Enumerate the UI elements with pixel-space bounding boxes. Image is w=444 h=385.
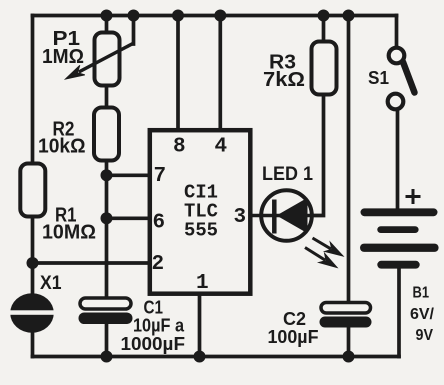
- switch S1 bottom contact: [388, 94, 404, 110]
- svg-text:8: 8: [173, 136, 186, 159]
- capacitor C2 top plate: [321, 303, 371, 314]
- wire left rail: [31, 16, 35, 357]
- svg-text:1: 1: [196, 272, 209, 295]
- node top wiper: [128, 10, 140, 22]
- battery B1 plus sign: [406, 189, 421, 204]
- svg-text:9V: 9V: [416, 327, 434, 344]
- LED1 cathode bar: [272, 200, 277, 234]
- node top C2: [343, 10, 355, 22]
- node top R3: [318, 10, 330, 22]
- node pin7 junction: [101, 169, 113, 181]
- svg-text:10MΩ: 10MΩ: [42, 222, 96, 244]
- node bottom C2: [343, 351, 355, 363]
- wire P1 to R2: [105, 85, 109, 108]
- svg-text:LED 1: LED 1: [262, 164, 313, 185]
- potentiometer P1 arrow: [66, 43, 134, 79]
- resistor R3: [312, 42, 337, 95]
- LED1 light arrow 2: [305, 248, 337, 268]
- svg-text:C2: C2: [283, 309, 306, 329]
- svg-text:555: 555: [184, 220, 218, 242]
- svg-text:X1: X1: [40, 273, 62, 294]
- transducer X1: [10, 293, 55, 333]
- wire C2 to bottom rail: [347, 326, 351, 357]
- svg-text:1000µF: 1000µF: [121, 334, 186, 354]
- svg-text:6: 6: [153, 212, 166, 235]
- capacitor C1 bottom plate: [79, 313, 133, 325]
- wire pin1: [198, 294, 202, 357]
- wire battery minus to bottom rail: [397, 266, 401, 357]
- wire P1 wiper: [132, 16, 136, 45]
- wire pin8: [176, 16, 180, 131]
- svg-text:10kΩ: 10kΩ: [38, 136, 86, 158]
- wire bottom rail: [33, 355, 400, 359]
- capacitor C1 top plate: [80, 298, 131, 309]
- potentiometer P1 body: [95, 33, 120, 86]
- svg-text:100µF: 100µF: [268, 327, 319, 347]
- node left rail pin2: [27, 257, 39, 269]
- svg-text:S1: S1: [368, 68, 389, 88]
- switch S1 top contact: [389, 48, 405, 64]
- wire pin7: [107, 173, 151, 177]
- wire C1 to bottom rail: [105, 322, 109, 357]
- wire top-right to S1: [395, 16, 399, 49]
- node pin6 junction: [101, 212, 113, 224]
- wire pin6: [107, 216, 151, 220]
- resistor R1: [20, 164, 45, 217]
- wire pin4: [218, 16, 222, 131]
- svg-text:7kΩ: 7kΩ: [263, 69, 305, 91]
- svg-text:B1: B1: [413, 285, 430, 302]
- svg-text:2: 2: [152, 253, 165, 276]
- wire R3 to LED corner: [311, 93, 324, 216]
- LED1 light arrow 1: [313, 238, 344, 256]
- svg-text:10µF a: 10µF a: [133, 316, 185, 336]
- battery plate short 4: [377, 261, 419, 269]
- capacitor C2 bottom plate: [320, 317, 372, 328]
- svg-text:1MΩ: 1MΩ: [42, 46, 84, 68]
- svg-text:7: 7: [154, 165, 167, 188]
- resistor R2: [94, 108, 119, 161]
- svg-text:C1: C1: [144, 298, 164, 318]
- switch S1 lever: [403, 62, 415, 93]
- wire S1 to battery plus: [396, 109, 400, 211]
- svg-text:6V/: 6V/: [410, 306, 435, 323]
- svg-text:3: 3: [234, 206, 247, 229]
- node top pin4: [214, 10, 226, 22]
- wire pin3 through LED: [250, 214, 313, 218]
- wire P1 top: [105, 16, 109, 35]
- LED1 circle: [261, 190, 312, 241]
- wire R2 to C1: [105, 160, 109, 299]
- node top P1: [101, 10, 113, 22]
- IC CI1 TLC555 timer box: [150, 130, 251, 294]
- wire R3 top: [322, 16, 326, 44]
- node bottom pin1: [194, 351, 206, 363]
- node top pin8: [172, 10, 184, 22]
- wire C2 top: [347, 16, 351, 304]
- battery plate short 2: [377, 226, 418, 233]
- wire pin2: [33, 261, 151, 265]
- battery plate long 3: [360, 244, 439, 252]
- battery plate long 1: [361, 208, 438, 216]
- node bottom C1: [101, 351, 113, 363]
- svg-text:4: 4: [215, 136, 228, 159]
- LED1 triangle: [277, 198, 308, 233]
- wire top rail: [33, 14, 397, 18]
